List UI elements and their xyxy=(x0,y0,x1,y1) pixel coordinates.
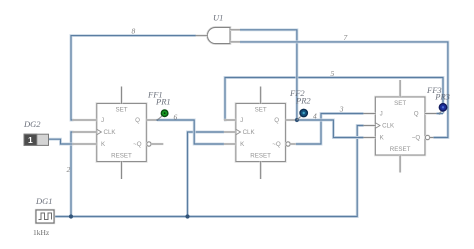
FF1 K pin xyxy=(72,143,97,145)
svg-text:RESET: RESET xyxy=(111,153,132,160)
probe PR3 lead xyxy=(440,111,442,114)
svg-text:PR2: PR2 xyxy=(295,96,311,106)
svg-text:J: J xyxy=(240,117,243,124)
svg-text:J: J xyxy=(380,111,383,118)
FF2 CLK pin xyxy=(224,131,236,133)
FF2 ~Q bubble xyxy=(286,142,290,146)
U1 input pin B xyxy=(230,41,240,43)
wire DG2 output to FF1 K xyxy=(49,139,74,144)
probe PR3 xyxy=(439,104,446,111)
wire net 5 (FF2 J to FF3 Q) xyxy=(224,78,443,121)
svg-text:RESET: RESET xyxy=(390,146,411,153)
svg-text:8: 8 xyxy=(132,26,136,35)
wire net 7 (U1 input B to FF3 ~Q) xyxy=(240,42,448,138)
U1 input pin A xyxy=(230,29,240,31)
probe PR1 xyxy=(161,110,168,117)
junction clock to FF2 xyxy=(185,214,189,218)
flip-flop FF1 box xyxy=(97,104,147,162)
junction clock to FF1 xyxy=(69,214,73,218)
wire FF3 Q output stub xyxy=(436,112,443,115)
svg-text:5: 5 xyxy=(331,69,335,78)
FF3 Q pin xyxy=(425,112,437,114)
FF1 ~Q pin xyxy=(151,143,163,145)
wire net 6 (FF1 Q to FF2 K) xyxy=(157,120,224,144)
svg-text:~Q: ~Q xyxy=(272,141,281,148)
wire net 3 (FF2 ~Q to FF3 J) xyxy=(296,114,364,145)
source DG2 interactive digital constant xyxy=(24,134,49,145)
FF1 CLK pin xyxy=(72,131,97,133)
svg-text:3: 3 xyxy=(339,104,344,113)
svg-text:Q: Q xyxy=(135,117,140,124)
svg-text:~Q: ~Q xyxy=(133,141,142,148)
wire net 8 (U1 output to FF1 J) xyxy=(71,36,196,120)
probe PR2 xyxy=(300,109,307,116)
svg-text:J: J xyxy=(101,117,104,124)
junction node FF2 Q xyxy=(295,118,299,122)
svg-text:PR1: PR1 xyxy=(155,97,171,107)
source DG1 digital clock xyxy=(36,210,54,223)
svg-text:DG1: DG1 xyxy=(35,196,53,206)
svg-text:PR3: PR3 xyxy=(434,92,450,102)
svg-text:1: 1 xyxy=(28,135,33,145)
svg-text:CLK: CLK xyxy=(104,129,117,136)
svg-text:SET: SET xyxy=(115,106,127,113)
svg-text:2: 2 xyxy=(67,165,71,174)
flip-flop FF3 box xyxy=(375,97,425,155)
FF3 K pin xyxy=(363,136,375,138)
FF2 ~Q pin xyxy=(290,143,296,145)
FF3 SET pin xyxy=(399,80,401,97)
FF2 Q pin xyxy=(285,119,297,121)
svg-text:RESET: RESET xyxy=(250,153,271,160)
probe PR2 lead xyxy=(297,117,301,121)
FF3 RESET pin xyxy=(399,155,401,173)
svg-text:4: 4 xyxy=(313,112,317,121)
wire net 4 branch right (FF2 Q node to FF3 K) xyxy=(297,120,364,138)
FF2 J pin xyxy=(224,119,236,121)
FF2 SET pin xyxy=(259,87,261,104)
svg-text:CLK: CLK xyxy=(243,129,256,136)
wire net 2 branch to FF1 CLK xyxy=(71,132,74,217)
svg-text:DG2: DG2 xyxy=(23,119,41,129)
junction probe tap FF1 Q xyxy=(156,119,158,121)
svg-text:Q: Q xyxy=(414,111,419,118)
U1 output pin xyxy=(196,34,208,36)
svg-text:SET: SET xyxy=(255,106,267,113)
svg-text:U1: U1 xyxy=(213,13,223,23)
FF3 CLK pin xyxy=(363,124,375,126)
wire net 2 clock bus (DG1 to FF3 CLK) xyxy=(55,126,365,217)
FF1 ~Q bubble xyxy=(147,142,151,146)
svg-text:SET: SET xyxy=(394,100,406,107)
wire net 4 branch up (FF2 Q node to U1 input A) xyxy=(240,30,297,120)
svg-text:Q: Q xyxy=(274,117,279,124)
flip-flop FF2 box xyxy=(236,104,286,162)
svg-text:7: 7 xyxy=(344,33,348,42)
svg-text:1kHz: 1kHz xyxy=(33,228,50,237)
junction probe tap FF3 Q xyxy=(439,113,441,115)
svg-text:~Q: ~Q xyxy=(412,135,421,142)
wire net 2 branch to FF2 CLK xyxy=(188,132,225,217)
FF2 K pin xyxy=(224,143,236,145)
FF1 J pin xyxy=(72,119,97,121)
svg-text:6: 6 xyxy=(174,112,178,121)
svg-text:CLK: CLK xyxy=(382,123,395,130)
FF3 ~Q bubble xyxy=(425,135,429,139)
FF3 J pin xyxy=(363,112,375,114)
FF3 ~Q pin xyxy=(430,136,434,138)
FF1 SET pin xyxy=(120,87,122,104)
op-amp U1 AND gate body xyxy=(207,27,230,43)
FF1 RESET pin xyxy=(120,162,122,180)
FF2 RESET pin xyxy=(259,162,261,180)
probe PR1 lead xyxy=(157,116,162,120)
FF1 Q pin xyxy=(146,119,158,121)
